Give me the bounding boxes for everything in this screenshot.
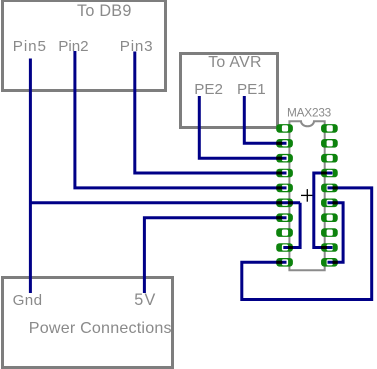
pad pin20 (right row1): [321, 124, 338, 133]
pin label PE2: [194, 82, 223, 97]
wire net Gnd/Pin5 horizontal to pin6 (passes through pad): [30, 201, 300, 204]
pad pin10 (left row10): [276, 258, 293, 267]
pad pin14 (right row7): [321, 213, 338, 222]
wire pin15 to pin11 strap: [328, 203, 344, 262]
wire-over-pad dark overlay pin11 right side: [332, 261, 337, 264]
pad pin11 (right row10): [321, 258, 338, 267]
wire-over-pad dark overlay pin17 left side: [321, 172, 327, 175]
wire-over-pad dark overlay pin12 left side: [321, 246, 327, 249]
pad pin15 (right row6): [321, 199, 338, 208]
pad pin4 (left row4): [276, 169, 293, 178]
pin label Pin2: [58, 39, 88, 54]
label To AVR: [208, 55, 262, 71]
wire-over-pad dark overlay pin15 right side: [332, 201, 337, 204]
connector box Power Connections: [1, 276, 175, 369]
wire net Gnd/Pin5 vertical: [29, 59, 32, 294]
label To DB9: [77, 3, 132, 19]
wire-over-pad dark overlay pin4: [276, 172, 282, 175]
pad pin16 (right row5): [321, 184, 338, 193]
connector box To AVR: [179, 52, 279, 129]
pin label Pin5: [13, 39, 47, 54]
pad pin5 (left row5): [276, 184, 293, 193]
pad pin13 (right row8): [321, 228, 338, 237]
pad pin2 (left row2): [276, 139, 293, 148]
IC U1 MAX233 body outline with pin-1 notch: [289, 121, 324, 270]
pad pin6 (left row6): [276, 199, 293, 208]
pin label Pin3: [120, 39, 154, 54]
pad pin18 (right row3): [321, 154, 338, 163]
wire-over-pad dark overlay pin6 both sides: [276, 201, 293, 204]
pad pin1 (left row1): [276, 124, 293, 133]
pin label 5V: [134, 292, 156, 308]
wire-over-pad dark overlay pin5: [276, 186, 282, 189]
pad pin7 (left row7): [276, 213, 293, 222]
pad pin19 (right row2): [321, 139, 338, 148]
wire net 5V to pin7: [144, 218, 286, 293]
wire net PE2 to pin3: [199, 96, 286, 158]
wire pin16 to pin10 outer loop: [242, 188, 372, 300]
wire-over-pad dark overlay pin9 right side: [288, 246, 293, 249]
wire pin17 to pin12 internal strap: [314, 173, 333, 248]
wire-over-pad dark overlay pin16 right side: [332, 186, 337, 189]
wire net Pin3 to pin4: [135, 52, 287, 174]
wire net PE1 to pin2: [244, 96, 286, 143]
wire-over-pad dark overlay pin2: [276, 142, 282, 145]
pad pin17 (right row4): [321, 169, 338, 178]
label Power Connections: [29, 320, 172, 336]
wire-over-pad dark overlay pin3: [276, 157, 282, 160]
wire-over-pad dark overlay pin7: [276, 216, 282, 219]
wire pin6 to pin9 internal strap: [283, 203, 300, 248]
wire-over-pad dark overlay pin10 left side: [276, 261, 282, 264]
pad pin8 (left row8): [276, 228, 293, 237]
pin label PE1: [237, 82, 266, 97]
wire net Pin2 to pin5: [75, 51, 287, 188]
crosshair chip origin mark: [301, 189, 314, 202]
pad pin12 (right row9): [321, 243, 338, 252]
svg-text:MAX233: MAX233: [287, 106, 332, 120]
pad pin9 (left row9): [276, 243, 293, 252]
pin label Gnd: [13, 293, 43, 308]
connector box To DB9: [1, 0, 167, 92]
pad pin3 (left row3): [276, 154, 293, 163]
